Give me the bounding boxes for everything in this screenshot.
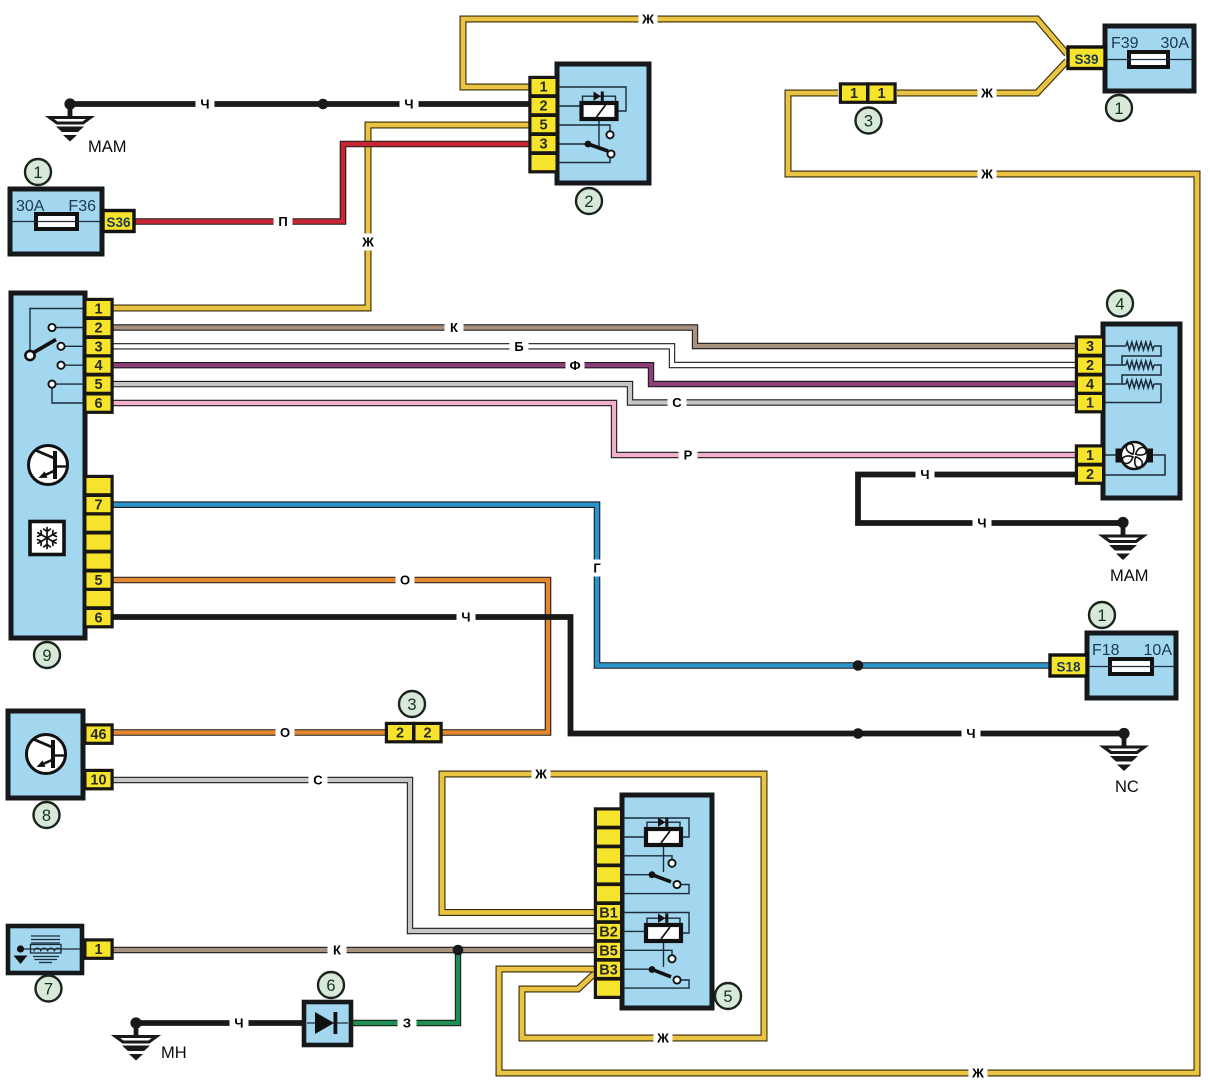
svg-text:Ж: Ж bbox=[980, 167, 993, 182]
connector pins comp9-bot bbox=[83, 475, 113, 629]
wire Г comp9-7 to S18 bbox=[112, 505, 1050, 666]
wire Ж net-B long loop to B3 bbox=[499, 93, 1197, 1073]
sensor (7) glyph bbox=[14, 936, 81, 964]
ground МН (МН bottom left) bbox=[116, 1017, 187, 1062]
svg-text:Ж: Ж bbox=[980, 86, 993, 101]
svg-text:З: З bbox=[403, 1016, 411, 1031]
resistor ladder bbox=[1103, 342, 1165, 475]
svg-text:Ч: Ч bbox=[966, 726, 975, 741]
svg-text:6: 6 bbox=[94, 611, 102, 627]
svg-text:О: О bbox=[280, 725, 290, 740]
ref circle 2 (comp2) bbox=[576, 188, 602, 214]
label О bottom bbox=[276, 725, 295, 740]
svg-text:МАМ: МАМ bbox=[1110, 567, 1149, 585]
control unit (9) switch internals bbox=[25, 309, 112, 404]
svg-text:1: 1 bbox=[33, 164, 42, 182]
ref circle 1 (F18) bbox=[1089, 602, 1115, 628]
connector pins conn3-11 bbox=[839, 82, 869, 104]
wire Ч comp4-2 to МАМ bbox=[858, 475, 1123, 524]
wire З comp6 to junction bbox=[351, 950, 458, 1023]
junction К-З junction bbox=[453, 945, 464, 956]
connector pins comp5 bbox=[594, 807, 623, 999]
svg-text:9: 9 bbox=[42, 647, 51, 665]
label З green bbox=[398, 1016, 417, 1031]
svg-text:S18: S18 bbox=[1056, 660, 1081, 675]
svg-text:S39: S39 bbox=[1074, 52, 1098, 67]
electronic unit (8) box bbox=[8, 711, 83, 798]
svg-text:Ж: Ж bbox=[656, 1031, 669, 1046]
label Ч comp4 1 bbox=[916, 467, 935, 482]
label Р mid bbox=[679, 448, 698, 463]
unit (8) transistor symbol bbox=[27, 735, 66, 774]
connector S18 bbox=[1050, 655, 1087, 676]
label С grey bbox=[309, 773, 328, 788]
svg-text:F36: F36 bbox=[68, 198, 96, 215]
wire П S36 to comp2-pin3 bbox=[134, 144, 529, 222]
svg-text:2: 2 bbox=[539, 99, 547, 115]
svg-text:Ч: Ч bbox=[404, 97, 413, 112]
wire Ф comp9-4 to comp4-4 bbox=[112, 365, 1075, 384]
svg-text:7: 7 bbox=[44, 980, 53, 998]
svg-text:Ч: Ч bbox=[200, 97, 209, 112]
connector pins comp4-top bbox=[1075, 335, 1105, 413]
label Ч comp4 2 bbox=[973, 516, 992, 531]
label Ч mid bbox=[457, 610, 476, 625]
svg-text:С: С bbox=[313, 773, 323, 788]
junction blue mid bbox=[853, 660, 864, 671]
svg-text:О: О bbox=[400, 573, 410, 588]
svg-text:30A: 30A bbox=[16, 198, 45, 215]
wire Р comp9-6 to comp4-m1 bbox=[112, 403, 1075, 455]
svg-text:30A: 30A bbox=[1161, 35, 1190, 52]
label Ж netD top bbox=[532, 767, 551, 782]
svg-text:B5: B5 bbox=[599, 943, 618, 959]
svg-text:3: 3 bbox=[94, 340, 102, 356]
svg-text:2: 2 bbox=[1086, 358, 1094, 374]
relay K2 internals bbox=[557, 87, 626, 163]
svg-text:10: 10 bbox=[90, 773, 106, 789]
connector pins conn3-11b bbox=[866, 82, 896, 104]
svg-text:5: 5 bbox=[539, 118, 547, 134]
label К bottom bbox=[328, 943, 347, 958]
connector pins comp9-top bbox=[83, 298, 113, 414]
connector pins conn3-22b bbox=[412, 722, 442, 744]
svg-text:Ч: Ч bbox=[920, 467, 929, 482]
svg-text:С: С bbox=[672, 395, 682, 410]
wire К comp9-2 to comp4-3 bbox=[112, 328, 1075, 347]
label Б mid bbox=[510, 339, 529, 354]
wire Ч comp9-6b to NC bbox=[112, 617, 1124, 734]
svg-text:1: 1 bbox=[877, 86, 885, 102]
label Ч МН bbox=[230, 1016, 249, 1031]
label Ч top 2 bbox=[400, 97, 419, 112]
connector pins conn3-22 bbox=[385, 722, 415, 744]
svg-text:К: К bbox=[333, 943, 341, 958]
svg-text:2: 2 bbox=[584, 193, 593, 211]
svg-text:8: 8 bbox=[42, 807, 51, 825]
svg-text:2: 2 bbox=[423, 726, 431, 742]
svg-text:Ч: Ч bbox=[234, 1016, 243, 1031]
wire Ж net-A comp2-pin1 to S39 bbox=[463, 19, 1067, 87]
svg-text:B1: B1 bbox=[599, 906, 618, 922]
svg-text:S36: S36 bbox=[106, 215, 131, 230]
svg-text:4: 4 bbox=[1086, 377, 1094, 393]
svg-text:МАМ: МАМ bbox=[88, 138, 127, 156]
relay unit (5) relay 1 internals bbox=[622, 818, 689, 894]
wire С comp9-5 to comp4-1 bbox=[112, 384, 1075, 402]
svg-text:F18: F18 bbox=[1092, 642, 1120, 659]
svg-text:1: 1 bbox=[1097, 607, 1106, 625]
svg-text:1: 1 bbox=[1114, 100, 1123, 118]
ref circle 1 (F36) bbox=[25, 159, 51, 185]
fuse F36 30A (1) bbox=[10, 189, 102, 254]
label Ж conn3 bbox=[978, 86, 997, 101]
wire Б comp9-3 to comp4-2 bbox=[112, 346, 1075, 365]
label Ж netB bottom bbox=[969, 1066, 988, 1081]
relay unit (5) box bbox=[622, 795, 712, 1008]
svg-text:Б: Б bbox=[514, 339, 523, 354]
junction black bottom mid bbox=[853, 728, 864, 739]
ref circle 3 (conn3 top) bbox=[856, 108, 882, 134]
svg-text:3: 3 bbox=[407, 696, 416, 714]
svg-text:Ж: Ж bbox=[534, 767, 547, 782]
label К mid bbox=[445, 320, 464, 335]
label Ж netC bbox=[361, 234, 374, 251]
fuse F39 30A (1) bbox=[1105, 26, 1194, 91]
relay K2 (2) box bbox=[557, 64, 649, 183]
wire С comp8-10 to comp5-B2 bbox=[110, 780, 594, 931]
label Ч bottom right bbox=[962, 726, 981, 741]
ground МАМ (top left) bbox=[50, 98, 127, 156]
svg-text:Ж: Ж bbox=[971, 1066, 984, 1081]
label О top bbox=[396, 573, 415, 588]
svg-text:6: 6 bbox=[326, 977, 335, 995]
svg-text:B2: B2 bbox=[599, 925, 618, 941]
wire Ж connector3 to S39 bbox=[897, 61, 1067, 93]
control unit (9) A/C snowflake symbol bbox=[30, 522, 64, 555]
diode (6) box bbox=[304, 1002, 351, 1045]
svg-text:П: П bbox=[278, 214, 287, 229]
connector pins comp8-10 bbox=[83, 769, 113, 791]
label Ж netB right bbox=[978, 167, 997, 182]
label Ф mid bbox=[566, 358, 585, 373]
wire Ж net-D comp5 B1-B3 loop bbox=[442, 774, 764, 1038]
ground NC (NC bottom right) bbox=[1104, 728, 1145, 796]
relay unit (5) relay 2 internals bbox=[622, 913, 689, 989]
svg-text:10A: 10A bbox=[1144, 642, 1173, 659]
control unit (9) transistor symbol bbox=[29, 446, 68, 485]
ref circle 3 (conn3 bottom) bbox=[399, 691, 425, 717]
svg-text:6: 6 bbox=[94, 396, 102, 412]
svg-text:1: 1 bbox=[1086, 448, 1094, 464]
evaporator sensor (7) box bbox=[8, 926, 82, 973]
label Ч top 1 bbox=[196, 97, 215, 112]
ref circle 8 (comp8) bbox=[34, 802, 60, 828]
svg-text:1: 1 bbox=[1086, 396, 1094, 412]
connector pins comp4-bot bbox=[1075, 444, 1105, 485]
label П red bbox=[274, 214, 293, 229]
label С mid bbox=[668, 395, 687, 410]
svg-text:46: 46 bbox=[90, 727, 106, 743]
label Г blue bbox=[592, 560, 603, 577]
svg-text:3: 3 bbox=[539, 137, 547, 153]
svg-text:3: 3 bbox=[1086, 339, 1094, 355]
svg-text:1: 1 bbox=[94, 302, 102, 318]
svg-text:B3: B3 bbox=[599, 962, 618, 978]
svg-text:5: 5 bbox=[94, 377, 102, 393]
connector pins comp2 bbox=[528, 76, 558, 174]
connector pins comp8-46 bbox=[83, 723, 113, 745]
fan motor symbol bbox=[1116, 442, 1154, 469]
svg-text:5: 5 bbox=[723, 988, 732, 1006]
wire Ж net-C comp2-pin5 to comp9-pin1 bbox=[112, 125, 529, 308]
svg-text:7: 7 bbox=[94, 498, 102, 514]
ref circle 9 (comp9) bbox=[34, 642, 60, 668]
svg-text:1: 1 bbox=[94, 942, 102, 958]
ref circle 5 (comp5) bbox=[715, 983, 741, 1009]
svg-text:2: 2 bbox=[396, 726, 404, 742]
svg-text:3: 3 bbox=[864, 112, 873, 130]
svg-text:Ф: Ф bbox=[569, 358, 580, 373]
connector S36 bbox=[103, 211, 134, 232]
connector pins comp7-1 bbox=[83, 938, 113, 960]
wire Ч comp6 to МН bbox=[136, 1020, 304, 1026]
junction top black bbox=[318, 99, 329, 110]
svg-text:МН: МН bbox=[161, 1044, 187, 1062]
label Ж netD bottom bbox=[654, 1031, 673, 1046]
svg-text:Г: Г bbox=[593, 561, 601, 576]
fuse F18 10A (1) bbox=[1087, 633, 1176, 698]
ref circle 4 (comp4) bbox=[1107, 291, 1133, 317]
svg-text:Ж: Ж bbox=[361, 235, 374, 250]
connector S39 bbox=[1068, 47, 1105, 69]
svg-text:F39: F39 bbox=[1111, 35, 1139, 52]
svg-text:1: 1 bbox=[850, 86, 858, 102]
wire О comp9-5b to comp8-46 bbox=[110, 580, 548, 733]
svg-text:4: 4 bbox=[1115, 295, 1124, 313]
blower resistor & motor (4) box bbox=[1103, 324, 1180, 498]
ground МАМ (right of comp4) bbox=[1103, 517, 1149, 585]
svg-text:Р: Р bbox=[684, 448, 693, 463]
wire Ч MAM to comp2-pin2 bbox=[70, 101, 529, 107]
svg-text:NC: NC bbox=[1115, 778, 1139, 796]
svg-text:5: 5 bbox=[94, 573, 102, 589]
svg-text:1: 1 bbox=[539, 80, 547, 96]
ref circle 6 (comp6) bbox=[318, 972, 344, 998]
svg-text:4: 4 bbox=[94, 358, 102, 374]
control unit (9) box bbox=[11, 293, 85, 638]
svg-text:2: 2 bbox=[1086, 467, 1094, 483]
label Ж top bbox=[639, 12, 658, 27]
svg-text:Ж: Ж bbox=[641, 12, 654, 27]
svg-text:Ч: Ч bbox=[461, 610, 470, 625]
svg-text:2: 2 bbox=[94, 321, 102, 337]
ref circle 7 (comp7) bbox=[36, 976, 62, 1002]
wire К comp7-1 to comp5-B5 bbox=[110, 947, 594, 953]
svg-text:К: К bbox=[450, 320, 458, 335]
svg-text:Ч: Ч bbox=[977, 516, 986, 531]
ref circle 1 (F39) bbox=[1106, 95, 1132, 121]
